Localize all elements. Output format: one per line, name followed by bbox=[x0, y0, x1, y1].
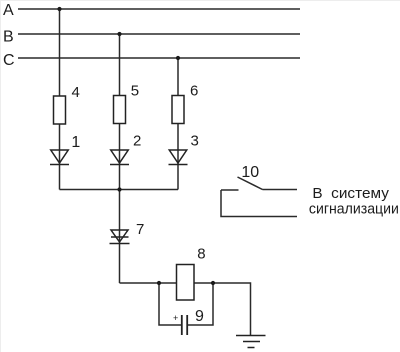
svg-text:сигнализации: сигнализации bbox=[309, 201, 399, 217]
svg-text:+: + bbox=[173, 313, 178, 323]
svg-text:9: 9 bbox=[195, 308, 204, 325]
svg-text:В систему: В систему bbox=[312, 186, 389, 202]
svg-text:5: 5 bbox=[131, 83, 139, 100]
svg-text:10: 10 bbox=[241, 164, 259, 181]
svg-text:8: 8 bbox=[197, 246, 205, 263]
svg-text:3: 3 bbox=[191, 133, 199, 150]
svg-text:1: 1 bbox=[71, 134, 80, 151]
svg-text:7: 7 bbox=[136, 221, 144, 238]
svg-text:6: 6 bbox=[190, 83, 198, 100]
svg-text:C: C bbox=[3, 52, 15, 69]
svg-text:4: 4 bbox=[72, 84, 80, 101]
svg-text:B: B bbox=[3, 29, 14, 46]
svg-text:A: A bbox=[3, 2, 14, 19]
svg-text:2: 2 bbox=[133, 133, 141, 150]
